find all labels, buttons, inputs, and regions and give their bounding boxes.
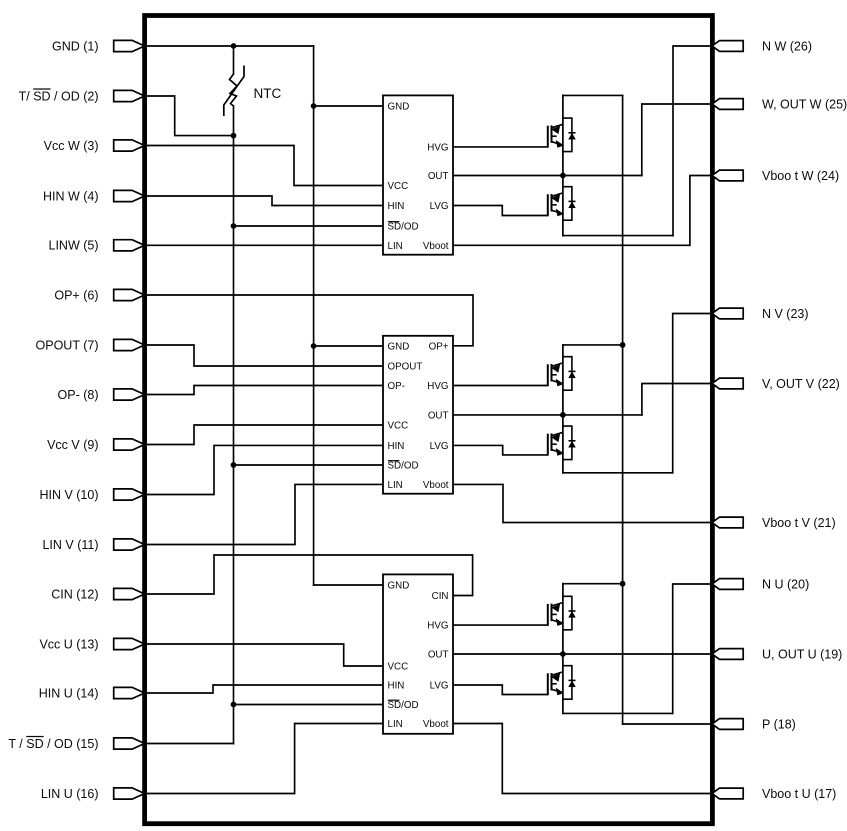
svg-text:N U (20): N U (20) (762, 577, 809, 591)
svg-text:N W (26): N W (26) (762, 39, 812, 53)
wire V bridge axis (562, 345, 564, 473)
wire NTC rail lower (233, 106, 235, 744)
wire GND rail to driver U GND (314, 584, 383, 586)
wire N V(23) to V bridge bottom (673, 314, 712, 473)
svg-text:OPOUT: OPOUT (388, 362, 423, 373)
wire Vboot W to pin 24 (453, 176, 712, 246)
svg-text:LINW (5): LINW (5) (49, 239, 99, 253)
pin 20 (right lead symbol) (712, 579, 743, 590)
svg-text:LIN: LIN (388, 480, 403, 491)
wire OUT W to pin 25 (642, 104, 712, 176)
svg-text:HIN: HIN (388, 201, 405, 212)
pin 15 (left lead symbol) (114, 738, 145, 749)
svg-text:Vboo t U (17): Vboo t U (17) (762, 787, 836, 801)
svg-text:OUT: OUT (428, 171, 449, 182)
wire Vcc V(9) to driver V VCC (144, 425, 383, 445)
pin 7 (left lead symbol) (114, 339, 145, 350)
svg-text:HVG: HVG (427, 621, 448, 632)
pin 9 (left lead symbol) (114, 439, 145, 450)
svg-text:SD/OD: SD/OD (388, 222, 419, 233)
pin 6 (left lead symbol) (114, 289, 145, 300)
wire P rail to pin 18 (623, 723, 712, 725)
transistor Q6 U low-side with body diode D6 (548, 666, 576, 700)
wire OUT V to pin 22 (642, 384, 712, 415)
svg-text:GND: GND (388, 102, 410, 113)
transistor Q4 V low-side with body diode D4 (548, 426, 576, 460)
pin 16 (left lead symbol) (114, 788, 145, 799)
wire T/SD/OD(2) to NTC rail (144, 96, 234, 136)
svg-text:T/ SD / OD (2): T/ SD / OD (2) (19, 89, 99, 103)
svg-text:LVG: LVG (430, 201, 449, 212)
NTC thermistor (zigzag wire) (230, 74, 238, 106)
pin 14 (left lead symbol) (114, 687, 145, 698)
wire Vcc W(3) to driver W VCC (144, 146, 383, 186)
wire T/SD/OD(15) row (144, 743, 234, 745)
pin 1 (left lead symbol) (114, 40, 145, 51)
svg-text:SD/OD: SD/OD (388, 700, 419, 711)
svg-text:LIN U (16): LIN U (16) (41, 787, 99, 801)
pin 23 (right lead symbol) (712, 308, 743, 319)
pin 10 (left lead symbol) (114, 489, 145, 500)
svg-text:HIN U (14): HIN U (14) (39, 686, 99, 700)
wire OUT V row (453, 414, 642, 416)
wire HIN W(4) to driver W HIN (144, 196, 383, 206)
svg-text:HIN V (10): HIN V (10) (39, 488, 98, 502)
svg-text:SD/OD: SD/OD (388, 461, 419, 472)
wire W bridge axis (562, 95, 564, 235)
svg-text:LVG: LVG (430, 441, 449, 452)
svg-text:OP+ (6): OP+ (6) (54, 288, 98, 302)
svg-text:HVG: HVG (427, 143, 448, 154)
transistor Q2 W low-side with body diode D2 (548, 187, 576, 221)
wire V bridge top edge (563, 344, 623, 346)
svg-text:OUT: OUT (428, 650, 449, 661)
pin 8 (left lead symbol) (114, 389, 145, 400)
junction dot P rail / V bridge top (620, 342, 626, 348)
NTC thermistor (diagonal strike) (224, 66, 244, 117)
svg-text:GND: GND (388, 581, 410, 592)
wire Vboot U to pin 17 (453, 724, 712, 794)
svg-text:V, OUT V (22): V, OUT V (22) (762, 377, 840, 391)
svg-text:Vcc V (9): Vcc V (9) (47, 438, 98, 452)
svg-text:LIN: LIN (388, 241, 403, 252)
svg-text:GND: GND (388, 342, 410, 353)
wire W bridge top edge (563, 94, 623, 96)
wire OUT W row (453, 175, 642, 177)
pin 22 (right lead symbol) (712, 378, 743, 389)
transistor Q3 V high-side with body diode D3 (548, 357, 576, 391)
pin 13 (left lead symbol) (114, 638, 145, 649)
pin 11 (left lead symbol) (114, 539, 145, 550)
pin 19 (right lead symbol) (712, 649, 743, 660)
wire LVG U gate wire (453, 685, 547, 695)
wire Vboot V to pin 21 (453, 484, 712, 522)
junction dot SD/OD V / NTC rail (231, 462, 237, 468)
junction dot OUT U node (560, 651, 566, 657)
wire HVG U gate wire (453, 624, 547, 626)
wire GND(1) to GND rail (144, 45, 314, 47)
wire CIN(12) to driver U CIN (144, 555, 473, 596)
pin 17 (right lead symbol) (712, 788, 743, 799)
svg-text:GND (1): GND (1) (52, 39, 99, 53)
pin 5 (left lead symbol) (114, 240, 145, 251)
wire OP-(8) to driver V OP- (144, 386, 383, 395)
gate driver U3 (phase U) block (383, 574, 453, 733)
wire SD/OD row driver W (234, 225, 384, 227)
junction dot SD/OD W / NTC rail (231, 223, 237, 229)
junction dot T/SD/OD(2) / NTC rail (231, 133, 237, 139)
svg-text:VCC: VCC (388, 421, 409, 432)
svg-text:OP-: OP- (388, 381, 405, 392)
pin 18 (right lead symbol) (712, 719, 743, 730)
wire GND rail to driver W GND (314, 105, 383, 107)
svg-text:N V (23): N V (23) (762, 307, 809, 321)
junction dot GND rail / driver W GND (311, 103, 317, 109)
junction dot OUT V node (560, 412, 566, 418)
svg-text:HIN: HIN (388, 441, 405, 452)
wire HVG W gate wire (453, 146, 547, 148)
wire NTC rail upper (233, 46, 235, 74)
svg-text:CIN: CIN (432, 591, 449, 602)
svg-text:Vboo t V (21): Vboo t V (21) (762, 516, 836, 530)
pin 21 (right lead symbol) (712, 517, 743, 528)
pin 25 (right lead symbol) (712, 99, 743, 110)
wire OUT U row to pin 19 (453, 653, 712, 655)
svg-text:Vcc U (13): Vcc U (13) (39, 637, 98, 651)
wire N U(20) to U bridge bottom (673, 584, 712, 713)
gate driver U2 (phase V) block (383, 336, 453, 494)
svg-text:HIN W (4): HIN W (4) (43, 189, 99, 203)
wire HIN U(14) to driver U HIN (144, 685, 383, 693)
svg-text:T / SD / OD (15): T / SD / OD (15) (8, 737, 98, 751)
svg-text:HIN: HIN (388, 681, 405, 692)
wire LVG V gate wire (453, 445, 547, 455)
wire HVG V gate wire (453, 385, 547, 387)
svg-text:W, OUT W (25): W, OUT W (25) (762, 97, 847, 111)
pin 4 (left lead symbol) (114, 190, 145, 201)
pin 12 (left lead symbol) (114, 588, 145, 599)
svg-text:Vboot: Vboot (423, 719, 449, 730)
wire SD/OD row driver V (234, 464, 384, 466)
svg-text:NTC: NTC (254, 86, 282, 101)
svg-text:VCC: VCC (388, 662, 409, 673)
wire W bridge bottom edge (563, 235, 673, 237)
svg-text:OP- (8): OP- (8) (58, 388, 99, 402)
junction dot GND rail / driver V GND (311, 343, 317, 349)
wire GND rail to driver V GND (314, 345, 383, 347)
svg-text:LVG: LVG (430, 681, 449, 692)
wire U bridge bottom edge (563, 712, 673, 714)
svg-text:Vboot: Vboot (423, 241, 449, 252)
junction dot SD/OD U / NTC rail (231, 702, 237, 708)
svg-text:OPOUT (7): OPOUT (7) (36, 338, 99, 352)
wire LINW(5) to driver W LIN (144, 244, 383, 246)
wire U bridge axis (562, 584, 564, 714)
svg-text:U, OUT U (19): U, OUT U (19) (762, 647, 842, 661)
wire OPOUT(7) to driver V OPOUT (144, 345, 383, 366)
svg-text:Vcc W (3): Vcc W (3) (44, 139, 99, 153)
junction dot P rail / U bridge top (620, 581, 626, 587)
gate driver U1 (phase W) block (383, 95, 453, 254)
pin 2 (left lead symbol) (114, 90, 145, 101)
svg-text:LIN: LIN (388, 719, 403, 730)
svg-text:Vboot: Vboot (423, 480, 449, 491)
wire Vcc U(13) to driver U VCC (144, 644, 383, 666)
svg-text:VCC: VCC (388, 181, 409, 192)
pin 24 (right lead symbol) (712, 170, 743, 181)
wire SD/OD row driver U (234, 704, 384, 706)
transistor Q1 W high-side with body diode D1 (548, 118, 576, 152)
wire V bridge bottom edge (563, 472, 673, 474)
IC package border (145, 16, 713, 824)
wire LIN U(16) to driver U LIN (144, 724, 383, 794)
svg-text:OUT: OUT (428, 411, 449, 422)
wire HIN V(10) to driver V HIN (144, 445, 383, 494)
wire U bridge top edge (563, 583, 623, 585)
pin 3 (left lead symbol) (114, 140, 145, 151)
wire OP+(6) to driver V OP+ (144, 295, 473, 346)
svg-text:CIN (12): CIN (12) (51, 587, 98, 601)
svg-text:HVG: HVG (427, 381, 448, 392)
wire LVG W gate wire (453, 206, 547, 216)
wire LIN V(11) to driver V LIN (144, 484, 383, 544)
transistor Q5 U high-side with body diode D5 (548, 596, 576, 630)
svg-text:LIN V (11): LIN V (11) (42, 538, 98, 552)
svg-text:OP+: OP+ (429, 342, 449, 353)
svg-text:Vboo t W (24): Vboo t W (24) (762, 169, 839, 183)
pin 26 (right lead symbol) (712, 41, 743, 52)
svg-text:P (18): P (18) (762, 717, 796, 731)
wire P rail vertical (622, 95, 624, 724)
junction dot OUT W node (560, 173, 566, 179)
wire N W(26) to W bridge bottom (673, 46, 712, 236)
junction dot GND row / NTC rail (231, 43, 237, 49)
wire GND rail vertical (313, 46, 315, 585)
